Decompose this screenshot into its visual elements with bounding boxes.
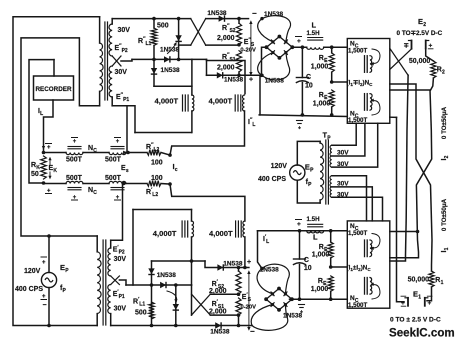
wire row1 mid segment	[83, 152, 109, 154]
4000T coil top-left	[191, 59, 193, 95]
box N_C top assembly	[347, 39, 390, 124]
resistor R_1 50000	[429, 271, 434, 287]
inductor L 1.5H bottom	[292, 230, 307, 232]
4000T coil bottom-right	[235, 221, 237, 237]
crossover X top left	[191, 19, 206, 45]
svg-text:0-20V: 0-20V	[240, 48, 256, 54]
transformer core top box lower	[364, 94, 366, 111]
wire riser bridge plus to top rail of mid	[259, 75, 261, 115]
diode 1N538 bottom upper rail	[217, 264, 223, 270]
wire T_L from recorder to R_K	[44, 100, 54, 152]
svg-text:L: L	[313, 233, 318, 242]
wire bridge left vertex loop	[262, 47, 267, 75]
svg-text:500: 500	[135, 310, 147, 317]
wire loop3 (third nested rectangle)	[29, 60, 54, 183]
inductor 500T row1-left	[66, 153, 83, 155]
wire lower rail y=59.4	[132, 58, 192, 60]
wire source bottom lead	[297, 180, 320, 203]
svg-text:500T: 500T	[105, 175, 122, 182]
node junction x=151.5 y=325.5	[150, 324, 154, 328]
wire mid-rail link down right margin	[397, 117, 405, 301]
ground-ish mark mid rail	[297, 120, 303, 122]
node junction R_S1p bottom	[237, 313, 241, 317]
diode 1N538 on y=285	[160, 282, 166, 288]
wire x=154 bottom to coil link	[154, 85, 192, 87]
transformer core bottom box lower	[364, 278, 366, 295]
resistor R_S2p 2000	[238, 268, 240, 272]
wire T1 secondary bottom lead	[112, 106, 135, 133]
node junction row2 right	[168, 182, 172, 186]
4000T coil top-right	[234, 95, 236, 111]
svg-text:30V: 30V	[115, 69, 128, 76]
wire row1 left segment	[44, 152, 67, 154]
wire riser from row2 down to T2 secondary	[111, 184, 123, 241]
transformer T1 secondary winding E_P1pp	[109, 66, 112, 97]
inductor 500T row2-right	[109, 181, 126, 183]
svg-text:50,000: 50,000	[408, 277, 430, 284]
diode 1N538 on x=178.6 vertical	[178, 19, 180, 60]
node junction row1 E_s riser	[126, 151, 130, 155]
svg-text:400 CPS: 400 CPS	[258, 176, 286, 183]
transformer T2 core	[102, 240, 104, 325]
transformer T1 secondary crossover	[112, 56, 121, 66]
svg-text:4,000T: 4,000T	[209, 229, 233, 238]
wire step down to y=267.5	[205, 261, 249, 268]
svg-text:500T: 500T	[66, 175, 83, 182]
node junction R_K top	[42, 151, 46, 155]
wire L to box bottom	[324, 230, 348, 232]
diode 1N538 lower rail	[217, 72, 223, 78]
svg-text:1N538: 1N538	[157, 272, 177, 279]
wire mid horizontal y=285	[126, 284, 192, 286]
svg-text:0 TO±50μA: 0 TO±50μA	[441, 198, 448, 231]
svg-text:1,500T: 1,500T	[348, 230, 367, 237]
resistor R_E top-upper 1000	[331, 47, 333, 53]
node junction bottom rail cap	[298, 229, 302, 233]
crossover X bottom	[192, 294, 211, 315]
flux arrow top box lower	[372, 101, 380, 115]
svg-text:1N538: 1N538	[260, 267, 280, 274]
node junction R_E mid	[330, 80, 334, 84]
vertical R_L1p with diodes	[151, 261, 153, 326]
wire bottom rail y=325.5	[111, 325, 252, 327]
diode 1N538 on x=154 below	[153, 59, 155, 86]
recorder box	[34, 76, 74, 100]
svg-text:SeekIC.com: SeekIC.com	[389, 327, 455, 340]
svg-text:1N538: 1N538	[264, 11, 284, 18]
node junction x=154 y=59.4	[152, 58, 156, 62]
resistor R_K 50	[41, 156, 47, 179]
wire bottom half upper rail y=261	[152, 260, 206, 262]
resistor R_E top-lower 1000	[329, 90, 334, 107]
node junction R_E bottom mid	[329, 265, 333, 269]
wire bottom mid rail right of box	[390, 231, 418, 233]
node junction x=178.6 y=59.4	[177, 58, 181, 62]
wire mid-tap to box (I1-I2)Nc	[332, 81, 348, 83]
node junction R_E top	[330, 45, 334, 49]
node junction mid rail cap	[301, 113, 305, 117]
bridge bottom top petals	[257, 269, 272, 294]
svg-text:1N538: 1N538	[224, 77, 244, 84]
bridge bottom petals wires	[258, 53, 273, 76]
wire bottom mid rail left of box	[258, 230, 348, 232]
node junction top rail x=154	[152, 17, 156, 21]
node junction R_S2p bottom	[237, 292, 241, 296]
wire terminal E2 left lead	[411, 48, 413, 50]
crossover X at E2	[390, 48, 408, 75]
resistor R_S1p 2000	[236, 298, 241, 315]
diode 1N538 bottom rail	[215, 322, 221, 328]
wire entry top box right A with twist	[390, 84, 432, 271]
wire row2 mid segment	[83, 183, 109, 185]
svg-text:1N538: 1N538	[161, 67, 181, 74]
rectifier bridge top (1N538 x4)	[267, 37, 293, 58]
node junction R_K bottom	[42, 181, 46, 185]
wire row2 left segment	[44, 183, 67, 185]
wire top rail right of X	[206, 18, 249, 20]
resistor R_E bottom-upper 1000	[330, 231, 332, 242]
svg-text:1,000: 1,000	[311, 64, 329, 71]
svg-text:2,000: 2,000	[217, 35, 235, 42]
4000T coil bottom-left	[191, 210, 193, 222]
transformer T_P core	[325, 140, 327, 204]
svg-text:120V: 120V	[24, 268, 41, 275]
resistor R_L1p 500	[149, 302, 155, 319]
svg-text:500T: 500T	[105, 157, 122, 164]
box N_C bottom assembly	[347, 221, 390, 308]
wire riser from T1 secondary to row1	[126, 106, 128, 153]
measure arrow E_Spp	[250, 22, 252, 74]
transformer T_P secondary upper pair	[330, 145, 332, 156]
wire source bottom leads	[48, 236, 50, 272]
svg-text:1N538: 1N538	[283, 313, 303, 320]
wire row1 right segment	[161, 153, 170, 156]
wire bottom bridge right vertex	[289, 298, 291, 300]
ac source center 120V 400CPS	[290, 165, 305, 180]
wire short y=45.1	[179, 44, 191, 46]
svg-text:1.5H: 1.5H	[307, 216, 321, 223]
resistor R_2 50000	[426, 49, 434, 61]
node junction x=175.8 y=325.5	[174, 324, 178, 328]
transformer T_P secondary lower pair	[330, 176, 332, 187]
wire bridge right vertex to L	[292, 46, 307, 48]
diode 1N538 top rail	[219, 15, 225, 21]
svg-text:RECORDER: RECORDER	[35, 86, 71, 93]
svg-text:1,000: 1,000	[313, 101, 331, 108]
svg-text:1N538: 1N538	[207, 10, 227, 17]
svg-text:+: +	[47, 145, 51, 151]
svg-text:C: C	[306, 74, 311, 81]
svg-text:0 TO∓2.5V D-C: 0 TO∓2.5V D-C	[397, 30, 443, 37]
transformer T1 secondary winding E_P2pp	[111, 19, 113, 24]
inductor 500T row1-right	[109, 153, 126, 155]
svg-text:0 TO±50μA: 0 TO±50μA	[441, 106, 448, 139]
transformer T2 primary	[96, 236, 98, 252]
svg-text:−: −	[43, 302, 47, 309]
node junction x=151.5 y=285	[150, 283, 154, 287]
svg-text:10: 10	[305, 83, 313, 90]
transformer core bottom box upper	[364, 240, 366, 257]
wire I_c upper link row1 to 4000T top-right coil	[170, 111, 245, 155]
wire loop2 (recorder to transformer primary bottom)	[21, 38, 99, 236]
wire box2 right edge extension	[191, 285, 193, 315]
terminal post E1 right	[424, 298, 426, 306]
svg-text:1N538: 1N538	[160, 47, 180, 54]
svg-text:+: +	[297, 221, 301, 228]
node junction row2 riser to T2	[122, 182, 126, 186]
svg-text:0-20V: 0-20V	[241, 305, 257, 311]
T_P secondary leads to top box	[332, 123, 356, 145]
svg-text:50,000: 50,000	[409, 58, 431, 65]
inductor 500T row2-left	[66, 181, 83, 183]
wire row2 right segment	[161, 183, 170, 186]
svg-text:1,000: 1,000	[312, 252, 330, 259]
wire E2 X leg down to bottom staircase	[390, 75, 408, 261]
svg-text:500T: 500T	[66, 157, 83, 164]
wire y=294.2 to R_S2p	[210, 293, 238, 295]
transformer T2 secondary E_P1p	[108, 285, 111, 314]
transformer T_P primary	[319, 141, 321, 143]
svg-text:100: 100	[151, 160, 163, 167]
terminal post E2 left	[411, 41, 413, 49]
svg-text:1.5H: 1.5H	[307, 30, 321, 37]
wire loop3 right edge	[53, 60, 55, 76]
transformer T2 secondary E_P2p	[110, 240, 112, 248]
node junction x=175.8 y=285	[174, 283, 178, 287]
wire lower rail y=75.3 to bridge	[207, 74, 263, 76]
resistor R_S2pp 2000	[238, 19, 240, 24]
node junction R_E bottom rail	[330, 113, 334, 117]
svg-text:−: −	[250, 327, 255, 336]
capacitor C 10 bottom	[299, 231, 301, 259]
box2 outline (T2 return loop)	[132, 210, 134, 286]
node junction top rail x=178.6	[177, 17, 181, 21]
svg-text:∓: ∓	[404, 43, 410, 50]
wire bottom plus rail y=299.2	[290, 298, 348, 300]
wire R_S1p to bottom rail	[238, 315, 240, 325]
bridge bottom lower petals	[251, 305, 272, 326]
wire T2 center tap to rail 285	[119, 280, 126, 285]
resistor R_L2-prime 100	[147, 181, 161, 187]
svg-text:+: +	[116, 139, 120, 145]
svg-text:1,500T: 1,500T	[348, 302, 367, 309]
node junction x=191.5 y=261	[190, 259, 194, 263]
measure arrow E_Sp	[248, 272, 250, 329]
diode 1N538 on y=59.4 wire	[164, 56, 170, 62]
svg-text:+: +	[42, 260, 46, 266]
wire source top lead	[297, 141, 320, 165]
svg-text:1N538: 1N538	[210, 329, 230, 336]
flux arrow top box upper	[372, 49, 380, 63]
resistor R_S1pp 2000	[236, 51, 241, 72]
svg-text:+: +	[73, 139, 77, 145]
node junction bridge lower-left	[260, 74, 264, 78]
capacitor C 10 top	[301, 47, 303, 77]
wire rail continues to coil top right	[192, 58, 207, 60]
transformer T1 core	[104, 22, 106, 100]
wire right coil bottom to rail 267.5	[244, 237, 246, 268]
svg-text:30V: 30V	[114, 306, 127, 313]
wire mid rail I_Lpp right of box	[390, 116, 397, 118]
transformer T2 secondary crossover	[111, 276, 120, 285]
box1 left loop (T1 group2 return)	[135, 132, 192, 134]
wire L to R_E junction	[324, 46, 348, 48]
wire rail extension to right coil	[207, 61, 246, 94]
inductor L 1.5H top	[307, 47, 324, 49]
wire I_c lower link row2 to 4000T bottom-right coil	[170, 184, 245, 221]
svg-text:+: +	[428, 300, 432, 307]
wire entry top box right B with twist	[390, 90, 432, 258]
vertical x=175.8 with diode	[175, 285, 177, 326]
svg-text:0 TO ± 2.5 V D-C: 0 TO ± 2.5 V D-C	[390, 317, 441, 324]
terminal post E1 left	[407, 298, 409, 306]
curved firing arrow to diode x=178.6	[168, 44, 176, 54]
svg-text:2,000: 2,000	[217, 65, 235, 72]
transformer T1 primary winding	[99, 17, 101, 43]
curved firing arrow bottom	[167, 291, 177, 301]
bridge top petals wires	[258, 19, 273, 42]
svg-text:4,000T: 4,000T	[153, 229, 177, 238]
resistor R_L2-doubleprime 100	[147, 150, 161, 156]
wire mid-tap to bottom box	[331, 266, 348, 268]
svg-text:1N538: 1N538	[265, 78, 285, 85]
svg-text:400 CPS: 400 CPS	[15, 286, 43, 293]
node junction row1 right	[168, 153, 172, 157]
node junction R_S2pp bottom	[237, 43, 241, 47]
svg-text:4,000T: 4,000T	[155, 97, 179, 106]
svg-text:120V: 120V	[271, 163, 288, 170]
wire drop to plus rail	[206, 59, 208, 75]
ac source bottom 120V 400CPS	[41, 272, 56, 287]
svg-text:L: L	[312, 21, 317, 30]
svg-text:100: 100	[151, 175, 163, 182]
wire outer loop left/top/bottom	[13, 17, 100, 326]
ground-ish mark bottom	[299, 304, 305, 306]
wire row1 to R_L2pp	[126, 152, 147, 154]
svg-text:4,000T: 4,000T	[209, 97, 233, 106]
svg-text:+: +	[298, 126, 301, 132]
svg-text:2,000: 2,000	[209, 288, 227, 295]
wire mid rail I_Lpp left of box	[259, 115, 347, 117]
wire row2 to R_L2p	[126, 183, 147, 185]
svg-text:+: +	[249, 77, 253, 84]
svg-text:50: 50	[31, 171, 39, 178]
svg-text:C: C	[304, 257, 309, 264]
svg-text:30V: 30V	[118, 27, 131, 34]
node junction bottom L/R_E	[329, 229, 333, 233]
T_P secondary leads to bottom box	[332, 176, 367, 221]
wire top rail y=18.6	[112, 18, 191, 20]
svg-text:1,000: 1,000	[311, 286, 329, 293]
rectifier bridge bottom (1N538 x4)	[266, 289, 292, 310]
flux arrow bottom box lower	[372, 285, 380, 299]
terminal post E2 right	[425, 41, 427, 49]
node junction R_S1pp bottom	[237, 74, 241, 78]
resistor R_E bottom-lower 1000	[328, 276, 333, 291]
svg-text:+: +	[297, 38, 301, 45]
svg-text:+: +	[247, 259, 251, 266]
svg-text:1,500T: 1,500T	[348, 48, 367, 55]
svg-text:−: −	[252, 9, 257, 18]
wire T1 center-tap to lower rail	[121, 59, 132, 61]
wire y=315.1 X to R_S1p	[210, 314, 238, 316]
svg-text:30V: 30V	[114, 256, 127, 263]
svg-text:500: 500	[157, 23, 169, 30]
flux arrow bottom box upper	[372, 234, 380, 248]
wire riser bottom rail to bridge	[258, 231, 263, 269]
resistor R_L1pp 500 vertical	[153, 19, 155, 28]
wire y=45 to R_S2pp	[206, 44, 239, 46]
svg-text:10: 10	[304, 265, 312, 272]
transformer core top box upper	[364, 56, 366, 73]
